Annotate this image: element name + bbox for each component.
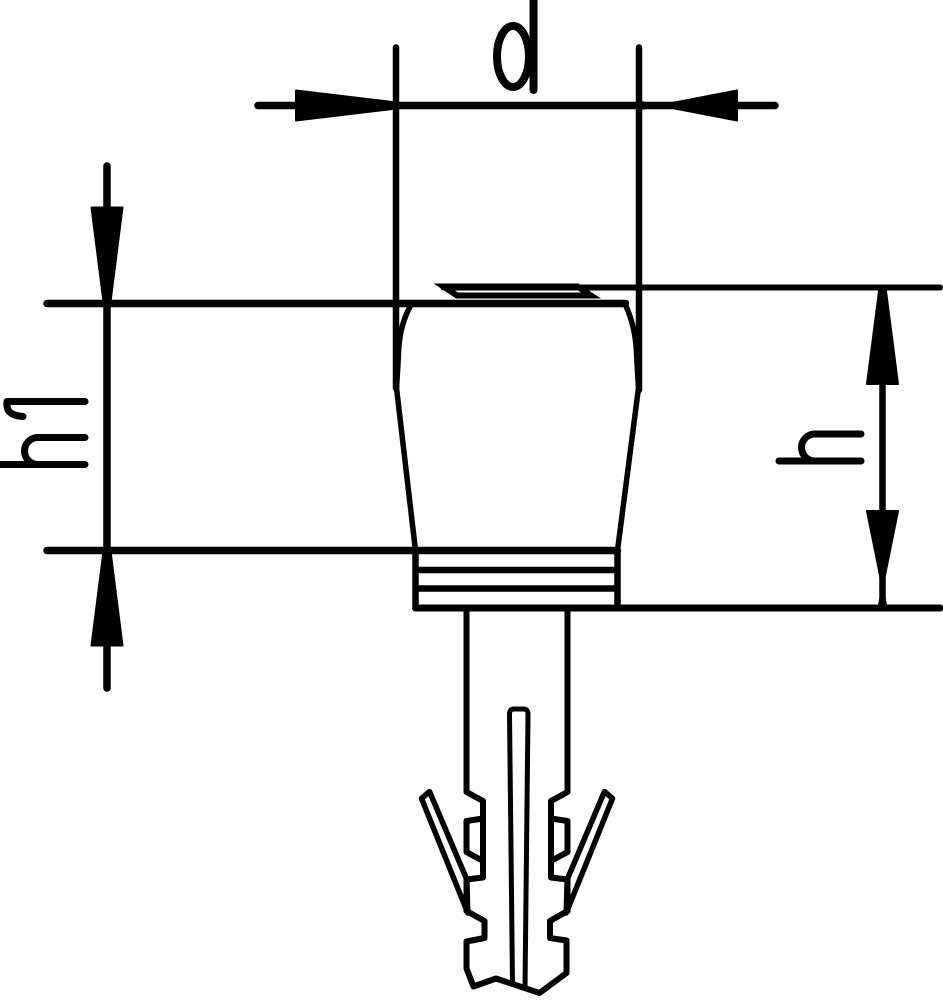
arrowhead h1 bottom — [92, 551, 123, 646]
shank and expansion zone outline — [467, 608, 568, 993]
shank tooth root line right — [548, 800, 554, 878]
wing right — [566, 792, 612, 914]
dimension stem h — [879, 291, 886, 604]
collar right edge — [614, 551, 621, 609]
label h: arch — [802, 434, 862, 461]
label h: stem — [779, 458, 861, 465]
label d stem — [530, 0, 538, 90]
extension line h top — [444, 285, 941, 291]
collar bottom / extension line h bottom — [416, 605, 941, 612]
plug body outline left — [397, 305, 416, 551]
label h1: h arch — [25, 438, 86, 465]
expansion slit — [510, 709, 529, 989]
extension line d right — [636, 48, 643, 391]
arrowhead h bottom — [867, 511, 898, 605]
label h1: 1 flag — [7, 402, 23, 417]
plug head cap — [444, 287, 592, 296]
label h1: 1 stem — [7, 398, 85, 405]
wing left — [422, 792, 468, 914]
label h1: h stem — [0, 461, 85, 468]
extension line h1 bottom / collar top — [47, 547, 618, 555]
shank tooth root line left — [480, 800, 486, 878]
dimension stem h1 — [103, 166, 111, 688]
collar rib line 2 — [416, 585, 618, 592]
collar left edge — [412, 551, 419, 609]
dimension line d — [258, 102, 775, 110]
collar rib line 1 — [416, 567, 618, 574]
arrowhead h1 top — [92, 208, 123, 303]
arrowhead d right — [641, 91, 737, 121]
label d bowl — [497, 26, 529, 87]
extension line d left — [393, 48, 400, 389]
arrowhead d left — [296, 91, 393, 121]
extension line h1 top (plug head top) — [47, 300, 626, 308]
plug body outline right — [618, 305, 639, 551]
arrowhead h top — [867, 291, 898, 384]
